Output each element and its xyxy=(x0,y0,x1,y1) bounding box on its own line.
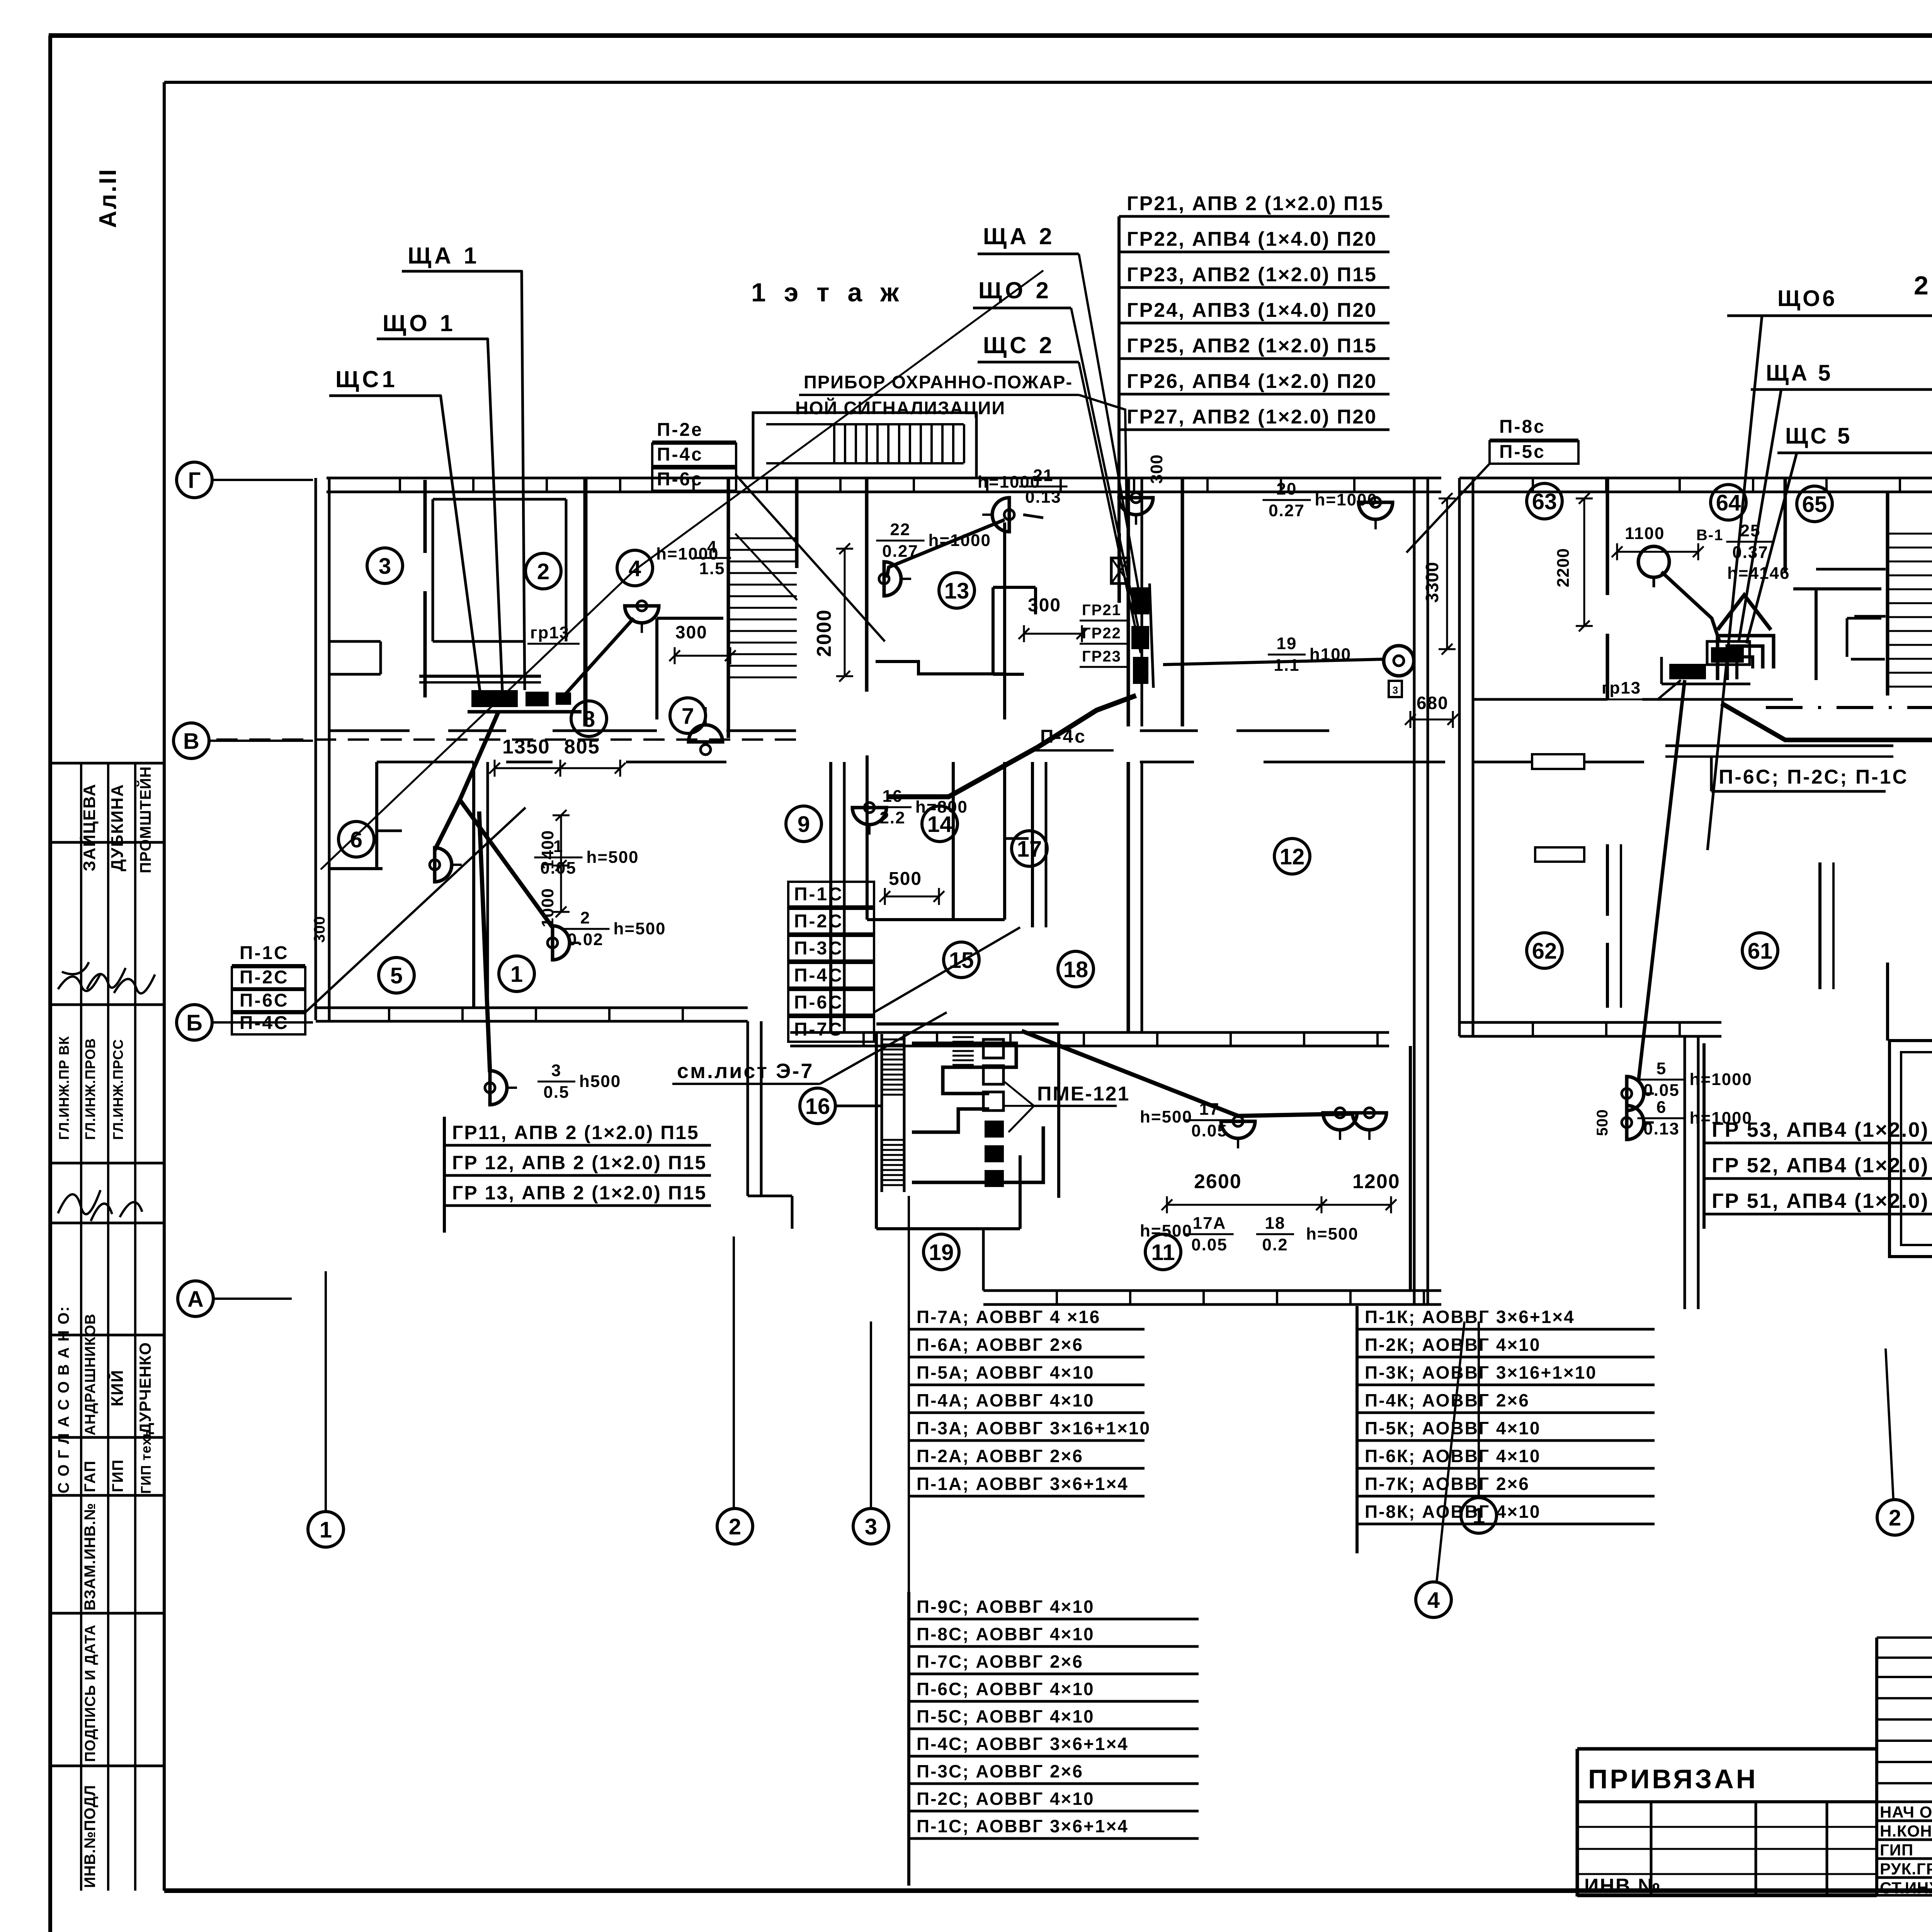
svg-text:ГИП техн.: ГИП техн. xyxy=(138,1424,154,1494)
svg-text:П-3С; АОВВГ 2×6: П-3С; АОВВГ 2×6 xyxy=(917,1761,1083,1781)
table group list ГР11-ГР13 xyxy=(444,1117,711,1233)
room circle 8 xyxy=(571,701,607,736)
svg-text:2000: 2000 xyxy=(813,609,835,657)
svg-text:2: 2 xyxy=(537,559,549,584)
room circle 15 xyxy=(944,942,979,978)
svg-text:2.2: 2.2 xyxy=(879,808,905,827)
wall room61 right xyxy=(1820,862,1833,989)
wall right of room13 xyxy=(1003,522,1006,719)
svg-text:Н.КОНТР: Н.КОНТР xyxy=(1880,1822,1932,1840)
svg-text:ПРОМШТЕЙН: ПРОМШТЕЙН xyxy=(136,766,154,873)
svg-text:13: 13 xyxy=(944,578,969,604)
wall room11 right interior xyxy=(1409,1046,1412,1291)
svg-text:0.13: 0.13 xyxy=(1025,488,1061,507)
room circle 65 xyxy=(1797,486,1832,522)
distribution boards ЩА2 ЩО2 ЩС2 floor1 xyxy=(1128,580,1153,692)
svg-text:ПОДПИСЬ И ДАТА: ПОДПИСЬ И ДАТА xyxy=(82,1624,99,1762)
svg-text:П-4К; АОВВГ 2×6: П-4К; АОВВГ 2×6 xyxy=(1365,1390,1530,1410)
lamp 2 room5 xyxy=(548,926,580,960)
wall right of room2 xyxy=(583,478,588,726)
svg-text:17А: 17А xyxy=(1193,1214,1226,1233)
corridor bottom wall floor2 left xyxy=(1473,746,1893,769)
svg-text:300: 300 xyxy=(311,916,328,943)
svg-text:ДУБКИНА: ДУБКИНА xyxy=(108,784,127,871)
svg-text:П-2А; АОВВГ 2×6: П-2А; АОВВГ 2×6 xyxy=(917,1446,1083,1466)
axis leader 1 floor1 xyxy=(325,1271,327,1512)
room7 walls xyxy=(657,618,723,719)
svg-text:ГР 12, АПВ 2 (1×2.0) П15: ГР 12, АПВ 2 (1×2.0) П15 xyxy=(452,1152,707,1173)
label ЩО 1 xyxy=(377,310,488,339)
svg-text:П-2е: П-2е xyxy=(657,420,703,440)
svg-text:h=1000: h=1000 xyxy=(1315,490,1378,509)
svg-text:300: 300 xyxy=(1028,595,1061,616)
dimension 300 top right xyxy=(1147,454,1166,484)
svg-text:ГР21, АПВ 2 (1×2.0) П15: ГР21, АПВ 2 (1×2.0) П15 xyxy=(1127,192,1384,215)
dimension 2600 1200 room11 xyxy=(1162,1170,1400,1213)
svg-text:П-8С; АОВВГ 4×10: П-8С; АОВВГ 4×10 xyxy=(917,1624,1095,1644)
svg-text:П-4с: П-4с xyxy=(1040,726,1087,747)
svg-text:1100: 1100 xyxy=(1625,524,1665,543)
room circle 19 xyxy=(923,1234,959,1270)
room16 niche walls xyxy=(876,1024,1059,1229)
svg-text:АО: АО xyxy=(988,1125,1004,1137)
room65 walls xyxy=(1793,589,1881,680)
label ЩО6 xyxy=(1727,286,1932,316)
room circle 13 xyxy=(939,573,975,608)
svg-text:Г: Г xyxy=(188,468,201,493)
room circle 62 xyxy=(1527,933,1562,968)
svg-text:ГЛ.ИНЖ.ПРСС: ГЛ.ИНЖ.ПРСС xyxy=(110,1039,126,1140)
svg-text:ГР11, АПВ 2 (1×2.0) П15: ГР11, АПВ 2 (1×2.0) П15 xyxy=(452,1122,699,1143)
svg-text:2600: 2600 xyxy=(1194,1170,1242,1193)
svg-text:ГИП: ГИП xyxy=(109,1459,126,1492)
svg-text:4: 4 xyxy=(707,537,717,556)
svg-text:1350: 1350 xyxy=(502,736,550,758)
svg-text:НОЙ СИГНАЛИЗАЦИИ: НОЙ СИГНАЛИЗАЦИИ xyxy=(795,398,1005,418)
label stack П-2е П-4с П-6с xyxy=(652,420,885,641)
svg-text:2: 2 xyxy=(580,908,590,927)
svg-text:16: 16 xyxy=(883,787,903,806)
svg-text:22: 22 xyxy=(890,520,911,539)
svg-text:2: 2 xyxy=(729,1514,741,1539)
entrance porch floor1 xyxy=(753,413,976,478)
svg-text:12: 12 xyxy=(1280,844,1305,869)
svg-text:18: 18 xyxy=(1265,1214,1286,1233)
lamp top right xyxy=(1119,493,1153,525)
axis circle 1 floor2 xyxy=(1461,1498,1497,1533)
svg-text:ПМЕ-121: ПМЕ-121 xyxy=(1037,1083,1130,1105)
lamp room13 xyxy=(879,562,911,596)
svg-text:680: 680 xyxy=(1417,693,1449,713)
svg-text:АНДРАШНИКОВ: АНДРАШНИКОВ xyxy=(82,1313,99,1435)
ПМЕ-121 block wiring xyxy=(882,1032,1043,1192)
svg-text:11: 11 xyxy=(1151,1240,1175,1265)
svg-text:h=500: h=500 xyxy=(1306,1225,1359,1243)
table feeder list П-9С..П-1С xyxy=(909,1592,1199,1886)
svg-text:65: 65 xyxy=(1802,492,1827,517)
exterior wall floor2 mid vertical xyxy=(1685,1036,1698,1309)
svg-text:ГР22, АПВ4 (1×4.0) П20: ГР22, АПВ4 (1×4.0) П20 xyxy=(1127,228,1377,250)
svg-text:ЩС 2: ЩС 2 xyxy=(983,332,1055,358)
svg-text:П-7А; АОВВГ 4 ×16: П-7А; АОВВГ 4 ×16 xyxy=(917,1307,1100,1327)
svg-text:ЩО 1: ЩО 1 xyxy=(383,310,456,336)
stair floor2 center xyxy=(1816,492,1932,696)
svg-text:805: 805 xyxy=(564,736,600,758)
room circle 5 xyxy=(379,957,414,993)
wire ЩС1 drop xyxy=(440,395,480,691)
table group list ГР21-ГР27 floor1 xyxy=(1119,192,1389,603)
svg-text:П-4А; АОВВГ 4×10: П-4А; АОВВГ 4×10 xyxy=(917,1390,1095,1410)
wire corridor thick floor1 xyxy=(1037,696,1136,747)
fraction label 4/1.5 room4 xyxy=(656,537,731,578)
axis circle 2 floor1 xyxy=(717,1509,753,1544)
svg-text:63: 63 xyxy=(1532,489,1557,514)
label ЩО 2 xyxy=(973,277,1138,626)
room13 bottom wall xyxy=(876,662,1005,674)
svg-text:h=1000: h=1000 xyxy=(929,531,991,550)
axis leader 4 floor1 xyxy=(1437,1321,1464,1582)
dimension 300 room7 xyxy=(1019,595,1087,642)
svg-text:ЩА 1: ЩА 1 xyxy=(408,243,480,269)
dimension 1100 В-1 xyxy=(1612,524,1723,560)
table feeder list П-7А..П-1А xyxy=(909,1307,1151,1496)
svg-text:П-1К; АОВВГ 3×6+1×4: П-1К; АОВВГ 3×6+1×4 xyxy=(1365,1307,1575,1327)
axis leader 1 floor2 xyxy=(1478,1321,1480,1498)
dimension 1000 1400 vertical xyxy=(538,810,570,927)
label ЩС 2 xyxy=(978,332,1141,653)
svg-text:62: 62 xyxy=(1532,939,1557,964)
svg-text:П-6А; АОВВГ 2×6: П-6А; АОВВГ 2×6 xyxy=(917,1335,1083,1355)
label stack П-1С..П-7С room15 xyxy=(788,882,1020,1042)
fire alarm device symbol xyxy=(1111,533,1129,603)
svg-text:h=1000: h=1000 xyxy=(1690,1109,1752,1128)
room circle 12 xyxy=(1274,838,1310,874)
axis circle А xyxy=(178,1281,213,1316)
svg-text:В-1: В-1 xyxy=(1696,527,1723,544)
wall room1|room15 block xyxy=(831,762,844,1032)
wall room3|room2 xyxy=(423,480,427,697)
svg-text:21: 21 xyxy=(1033,466,1054,485)
svg-text:h=500: h=500 xyxy=(1140,1221,1192,1240)
svg-text:17: 17 xyxy=(1199,1100,1220,1119)
room circle 64 xyxy=(1711,485,1746,520)
room circle 11 xyxy=(1145,1234,1181,1270)
lamp room4 xyxy=(625,601,659,633)
svg-text:64: 64 xyxy=(1716,490,1741,515)
svg-text:0.05: 0.05 xyxy=(1191,1121,1228,1140)
svg-text:ГР26, АПВ4 (1×2.0) П20: ГР26, АПВ4 (1×2.0) П20 xyxy=(1127,370,1377,393)
svg-text:ГР27, АПВ2 (1×2.0) П20: ГР27, АПВ2 (1×2.0) П20 xyxy=(1127,406,1377,428)
stamp signatures xyxy=(58,962,155,1221)
dimension 2200 floor2 xyxy=(1554,493,1593,631)
lamp room11 c xyxy=(1352,1108,1386,1140)
fraction label 6/0.13 floor2 xyxy=(1637,1098,1752,1138)
svg-text:П-6С: П-6С xyxy=(240,990,289,1011)
svg-text:П-9С; АОВВГ 4×10: П-9С; АОВВГ 4×10 xyxy=(917,1597,1095,1617)
svg-text:П-3А; АОВВГ 3×16+1×10: П-3А; АОВВГ 3×16+1×10 xyxy=(917,1418,1151,1438)
leader diagonal to table П xyxy=(185,947,237,1198)
room circle 7 xyxy=(670,698,706,733)
room circle 18 xyxy=(1058,951,1094,987)
label П-6С П-2С П-1С xyxy=(1711,757,1908,791)
svg-text:А: А xyxy=(187,1287,204,1312)
wall room18|room12 xyxy=(1128,478,1142,1032)
wire ЩО1 drop xyxy=(488,338,502,690)
wall room9|room14 xyxy=(866,755,869,920)
wall room62|61 xyxy=(1535,844,1621,1008)
svg-text:ГР24, АПВ3 (1×4.0) П20: ГР24, АПВ3 (1×4.0) П20 xyxy=(1127,299,1377,321)
corridor axis dashed line floor1 xyxy=(216,738,796,741)
svg-text:П-4С; АОВВГ 3×6+1×4: П-4С; АОВВГ 3×6+1×4 xyxy=(917,1734,1129,1754)
svg-text:1: 1 xyxy=(510,962,523,987)
svg-text:8: 8 xyxy=(583,707,595,732)
svg-text:1 э т а ж: 1 э т а ж xyxy=(751,278,904,307)
svg-text:П-6с: П-6с xyxy=(657,469,703,490)
svg-text:П-4С: П-4С xyxy=(794,965,844,986)
distribution boards room64 ЩО6 ЩА5 ЩС5 xyxy=(1662,641,1750,684)
stamp rotated names block3 xyxy=(82,1313,154,1435)
dimension 1350,805 xyxy=(489,736,626,777)
axis leader А xyxy=(213,1298,292,1300)
stair floor1 xyxy=(728,478,797,738)
exterior wall floor2 rooms62 bottom xyxy=(1459,1022,1721,1036)
svg-text:1000: 1000 xyxy=(538,888,557,927)
svg-text:1: 1 xyxy=(1473,1503,1485,1529)
svg-text:6: 6 xyxy=(1656,1098,1667,1117)
svg-text:ГР 13, АПВ 2 (1×2.0) П15: ГР 13, АПВ 2 (1×2.0) П15 xyxy=(452,1182,707,1204)
table feeder list П-1К..П-8К xyxy=(1357,1306,1655,1553)
wire boards64 down to room61 lamps xyxy=(1638,680,1685,1082)
svg-text:19: 19 xyxy=(929,1240,954,1265)
room circle 63 xyxy=(1527,483,1562,519)
wall room14|room17 xyxy=(952,762,955,920)
label гр13 floor2 xyxy=(1599,679,1681,699)
wall room19|room11 xyxy=(1057,1032,1060,1198)
label ЩС 1 xyxy=(329,366,441,396)
title block revision grid xyxy=(1877,1638,1932,1897)
svg-text:П-2С: П-2С xyxy=(240,967,289,988)
axis circle 2 floor2 xyxy=(1877,1500,1913,1535)
svg-text:П-6С: П-6С xyxy=(794,992,844,1013)
axis leader 3 floor1 xyxy=(870,1321,872,1509)
lamp 3 room5 xyxy=(485,1071,517,1105)
leader room16 xyxy=(835,1105,882,1107)
corridor axis dash-dot floor2 xyxy=(1766,706,1932,709)
label ЩС 5 xyxy=(1777,423,1932,453)
wire corridor thick floor1 part2 xyxy=(887,747,1037,797)
fraction label 21/0.13 xyxy=(978,466,1068,507)
exterior wall floor2 left xyxy=(1459,478,1473,1036)
corridor top wall floor1 xyxy=(330,730,1329,732)
fraction label 2/0.02 xyxy=(561,908,666,949)
wire ЩС5 drop xyxy=(1747,453,1797,643)
svg-text:П-5с: П-5с xyxy=(1499,442,1546,462)
wire boards to room4 lamp xyxy=(564,618,634,696)
lamp 20 floor1 xyxy=(1359,497,1393,529)
svg-text:гр13: гр13 xyxy=(530,623,570,642)
wall room15|room18 xyxy=(1032,762,1046,927)
svg-text:КИЙ: КИЙ xyxy=(107,1369,127,1406)
wire branch lamp2 xyxy=(460,800,553,927)
svg-text:С О Г Л А С О В А Н О:: С О Г Л А С О В А Н О: xyxy=(55,1306,72,1493)
wall floor1 niche connector xyxy=(982,1229,985,1291)
svg-text:0.2: 0.2 xyxy=(1262,1235,1288,1254)
svg-text:ГР25, АПВ2 (1×2.0) П15: ГР25, АПВ2 (1×2.0) П15 xyxy=(1127,335,1377,357)
svg-text:ЩА 2: ЩА 2 xyxy=(983,223,1055,249)
svg-text:0.5: 0.5 xyxy=(543,1083,569,1102)
svg-text:25: 25 xyxy=(1740,521,1761,540)
exterior wall floor1 lower-block left xyxy=(748,1021,761,1196)
corridor bottom wall floor1 xyxy=(377,761,1445,764)
svg-text:П-2С: П-2С xyxy=(794,911,844,932)
lamp room13 top xyxy=(982,498,1014,532)
exterior wall floor1 lower-block bottom xyxy=(983,1291,1441,1304)
rooms63-65 bottom wall xyxy=(1473,698,1607,701)
wire boards to room5 lamps xyxy=(435,712,498,850)
svg-text:0.27: 0.27 xyxy=(882,542,918,561)
shaft room69 xyxy=(1888,963,1932,1257)
svg-text:1.5: 1.5 xyxy=(699,559,725,578)
svg-text:П-1С; АОВВГ 3×6+1×4: П-1С; АОВВГ 3×6+1×4 xyxy=(917,1816,1129,1836)
svg-text:ЩО6: ЩО6 xyxy=(1777,286,1837,311)
label гр13 floor1 xyxy=(527,623,580,644)
svg-text:5: 5 xyxy=(1656,1059,1667,1078)
svg-text:ПРИБОР ОХРАННО-ПОЖАР-: ПРИБОР ОХРАННО-ПОЖАР- xyxy=(804,372,1073,392)
axis circle 4 floor1 xyxy=(1416,1582,1451,1617)
svg-text:2200: 2200 xyxy=(1554,548,1573,587)
room circle 4 xyxy=(617,550,653,586)
svg-text:Б: Б xyxy=(186,1010,202,1036)
axis leader Б xyxy=(212,1021,313,1024)
svg-text:h=4146: h=4146 xyxy=(1727,564,1790,583)
label П-8с П-5с stack xyxy=(1406,417,1578,553)
svg-text:П-5А; АОВВГ 4×10: П-5А; АОВВГ 4×10 xyxy=(917,1362,1095,1383)
dimension 3300 floor2 xyxy=(1422,493,1456,655)
wall room63|64 xyxy=(1606,478,1609,699)
ПМЕ-121 label xyxy=(1005,1082,1130,1132)
svg-text:1: 1 xyxy=(320,1517,332,1543)
svg-text:П-1С: П-1С xyxy=(794,884,844,905)
dimension 300 room7 left xyxy=(669,622,736,664)
svg-text:П-6С; П-2С; П-1С: П-6С; П-2С; П-1С xyxy=(1719,766,1908,788)
svg-text:15: 15 xyxy=(949,948,974,973)
svg-text:300: 300 xyxy=(1147,454,1166,484)
svg-text:0.37: 0.37 xyxy=(1732,543,1769,562)
svg-text:П-6К; АОВВГ 4×10: П-6К; АОВВГ 4×10 xyxy=(1365,1446,1541,1466)
wall left of room13 xyxy=(865,479,869,692)
lamp room19 a xyxy=(1221,1116,1255,1148)
lamp room63 xyxy=(1638,546,1669,577)
labels ГР21 ГР22 ГР23 small floor1 xyxy=(1080,602,1128,667)
svg-text:h=1000: h=1000 xyxy=(1690,1070,1752,1089)
svg-text:ГАП: ГАП xyxy=(82,1460,99,1492)
wire ПМЕ to lamps xyxy=(1022,1031,1354,1116)
svg-text:16: 16 xyxy=(805,1094,830,1119)
svg-text:ГР23, АПВ2 (1×2.0) П15: ГР23, АПВ2 (1×2.0) П15 xyxy=(1127,264,1377,286)
stamp rotated names block1 xyxy=(79,766,154,873)
svg-text:3: 3 xyxy=(1393,684,1398,696)
axis leader В xyxy=(209,740,313,742)
label см.лист Э-7 xyxy=(672,1012,947,1084)
fraction label 20/0.27 xyxy=(1262,480,1378,520)
lamp 1 room5 xyxy=(430,848,462,882)
svg-text:ЗАЙЦЕВА: ЗАЙЦЕВА xyxy=(79,783,99,871)
svg-text:гр13: гр13 xyxy=(1602,679,1641,697)
exterior wall floor1 rooms15-18 bottom xyxy=(790,1032,1389,1046)
wire branch lamp3 xyxy=(479,811,490,1072)
fraction label 19/1.1 xyxy=(1268,634,1351,675)
axis circle 1 floor1 xyxy=(308,1512,344,1547)
left stamp column grid xyxy=(50,763,164,1891)
fraction label 1/0.05 xyxy=(534,837,639,878)
axis circle В xyxy=(173,723,209,759)
svg-text:ГЛ.ИНЖ.ПР ВК: ГЛ.ИНЖ.ПР ВК xyxy=(56,1036,72,1140)
svg-text:ГР23: ГР23 xyxy=(1082,648,1121,665)
svg-text:П-2К; АОВВГ 4×10: П-2К; АОВВГ 4×10 xyxy=(1365,1335,1541,1355)
lamp room61 a xyxy=(1622,1077,1654,1111)
svg-text:П-2С; АОВВГ 4×10: П-2С; АОВВГ 4×10 xyxy=(917,1789,1095,1809)
distribution boards ЩС1 ЩО1 ЩА1 xyxy=(419,676,582,712)
room circle 6 xyxy=(338,821,374,857)
fraction 25/0.37 h=4146 xyxy=(1726,521,1790,583)
room3 lower notch xyxy=(329,641,381,674)
lamp room61 b xyxy=(1622,1105,1654,1139)
wire room13 xyxy=(887,520,1005,578)
axis circle Б xyxy=(177,1005,212,1040)
svg-text:5: 5 xyxy=(390,963,403,988)
axis leader 2 floor1 xyxy=(733,1236,735,1509)
svg-text:0.05: 0.05 xyxy=(1191,1235,1228,1254)
wall rooms6-5|room1 xyxy=(474,762,488,1008)
wire inverted V room64 xyxy=(1718,595,1771,630)
svg-text:П-8К; АОВВГ 4×10: П-8К; АОВВГ 4×10 xyxy=(1365,1502,1541,1522)
svg-text:П-6С; АОВВГ 4×10: П-6С; АОВВГ 4×10 xyxy=(917,1679,1095,1699)
svg-text:1200: 1200 xyxy=(1352,1170,1400,1193)
label ЩА 1 xyxy=(402,243,522,271)
axis leader 2 floor2 xyxy=(1886,1349,1893,1500)
svg-text:4: 4 xyxy=(1427,1588,1440,1613)
table margin vertical line xyxy=(908,1196,910,1886)
svg-text:0.13: 0.13 xyxy=(1643,1119,1680,1138)
svg-text:1.1: 1.1 xyxy=(1274,656,1299,675)
svg-text:СТ.ИНЖ: СТ.ИНЖ xyxy=(1880,1879,1932,1897)
svg-text:ИНВ.№: ИНВ.№ xyxy=(1584,1875,1662,1897)
wire corridor horizontal floor2 xyxy=(1721,703,1932,740)
svg-text:h=500: h=500 xyxy=(614,919,666,938)
wire top lamp21 xyxy=(1023,515,1043,518)
fraction labels 17А 18 room11 xyxy=(1140,1214,1359,1254)
exterior wall floor1 bottom left xyxy=(316,1008,748,1021)
svg-text:Ал.II: Ал.II xyxy=(95,168,121,228)
label stack П-1с П-2с П-6с П-4с xyxy=(232,808,526,1034)
wire to right h100 xyxy=(1163,659,1384,665)
svg-text:П-4с: П-4с xyxy=(657,444,703,465)
svg-text:П-8с: П-8с xyxy=(1499,417,1546,437)
svg-text:500: 500 xyxy=(889,869,922,889)
wire coil room64 xyxy=(1718,636,1774,680)
svg-text:2: 2 xyxy=(1889,1505,1901,1531)
room circle 9 xyxy=(786,806,821,842)
svg-text:см.лист Э-7: см.лист Э-7 xyxy=(677,1060,814,1083)
fraction label 17/0.05 with h=500 xyxy=(1140,1100,1234,1140)
axis circle Г xyxy=(177,462,212,498)
switch box 3 xyxy=(1389,681,1402,697)
svg-text:ГР22: ГР22 xyxy=(1082,625,1121,642)
wall floor1 block step xyxy=(748,1196,792,1229)
svg-text:4: 4 xyxy=(629,556,641,581)
svg-text:П-3С: П-3С xyxy=(794,938,844,959)
fraction label 22/0.27 xyxy=(876,520,991,561)
